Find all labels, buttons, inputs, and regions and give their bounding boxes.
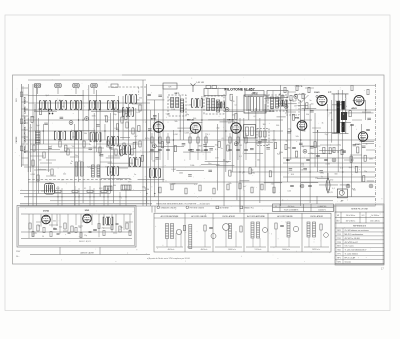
wire [295,93,306,95]
coil MF1a [171,98,174,108]
resistor R62 [329,148,331,154]
fill parts left upper-right [118,104,142,134]
svg-text:1k: 1k [366,144,368,146]
wire [120,136,130,138]
wire [37,88,39,94]
svg-text:Ch. HF bobinee sur resistance: Ch. HF bobinee sur resistance [345,229,369,232]
coil L5 [92,165,95,177]
wire [248,96,250,120]
coil MF4a [271,97,274,108]
svg-text:5n: 5n [71,161,73,163]
aerial symbol [191,84,196,93]
capacitor C71 [319,171,323,172]
svg-text:4n7: 4n7 [266,100,269,102]
capacitor CS2280 [228,149,232,150]
wire [28,79,146,81]
wire [342,90,344,194]
chassis boundary bottom [20,205,376,207]
svg-text:300: 300 [114,108,117,110]
svg-text:100k: 100k [334,132,338,134]
wire [278,103,297,105]
capacitor C34 [266,148,270,149]
resistor RX0 [284,87,286,92]
svg-text:ACCORD ANTENNE: ACCORD ANTENNE [247,215,265,218]
alignment boxes strip [154,213,331,252]
wire [317,130,319,172]
wire [182,104,184,140]
wire [244,152,263,154]
resistor RX2 [296,85,298,90]
svg-text:5n: 5n [61,179,63,181]
capacitor C50 [299,143,303,144]
svg-text:10n: 10n [152,161,155,163]
svg-text:4n7: 4n7 [134,136,137,138]
resistor RX8 [333,147,335,152]
capacitor CS1880 [188,149,192,150]
tube V7 [295,116,307,130]
svg-text:300: 300 [276,125,279,127]
electrolytic capacitor CE48 [284,105,288,109]
wire [309,104,311,203]
wire [264,182,282,184]
svg-text:TENSIONS MESUREES AVEC VOLTM: TENSIONS MESUREES AVEC VOLTMETRE — 20.00… [156,202,210,205]
title block table [335,204,384,265]
resistor R39 [230,94,232,100]
svg-text:a) A partir du No de serie 175: a) A partir du No de serie 1750 remplace… [147,257,190,260]
electrolytic capacitor CE100 [300,184,304,188]
frame fade [60,74,122,76]
svg-text:0,5M: 0,5M [184,132,189,134]
svg-text:UCH42: UCH42 [43,210,49,213]
svg-text:10n: 10n [208,163,211,165]
svg-text:2M2: 2M2 [251,172,255,174]
svg-text:25p: 25p [215,145,218,147]
capacitor C52 [287,132,291,133]
bus resistors [55,190,107,192]
svg-text:5n: 5n [70,163,72,165]
wire [28,102,150,104]
wire [57,88,59,94]
resistor PR4 [71,226,73,232]
svg-text:BO1: BO1 [337,246,341,248]
wire [231,96,233,172]
capacitor C36 [147,94,151,95]
connector J2 [55,84,61,88]
capacitor C3 [44,123,48,124]
switch box A [163,83,177,89]
wire [297,104,307,106]
switch box C [245,91,264,97]
wire [38,169,46,171]
svg-text:20p: 20p [186,114,189,116]
wire [286,100,288,182]
svg-text:470: 470 [128,182,131,184]
svg-text:25p: 25p [301,146,304,148]
svg-text:0,25: 0,25 [33,233,36,235]
svg-text:50: 50 [144,188,146,190]
svg-text:1400 kc/s: 1400 kc/s [228,249,236,251]
svg-text:1M: 1M [135,142,138,144]
electrolytic capacitor CE103 [369,184,373,188]
svg-text:50k: 50k [296,136,299,138]
capacitor C101 [292,147,296,148]
IF transformer S4 [90,101,101,110]
svg-text:HP 21 cm AP: HP 21 cm AP [345,257,356,260]
wire [319,150,346,152]
wire [200,149,208,151]
IF transformer S3 [71,101,82,110]
resistor RA4 [275,223,277,229]
wire [360,141,374,143]
resistor R35 [274,143,276,149]
capacitor CS2282 [244,149,248,150]
IF transformer S14 [126,95,137,104]
panel bus top [21,213,132,215]
svg-text:20p: 20p [72,137,75,139]
MF1 shield box [168,95,186,116]
svg-text:5n: 5n [310,100,312,102]
resistor RX5 [351,85,353,90]
svg-text:20p: 20p [302,131,305,133]
svg-text:10n: 10n [353,190,356,192]
wire [71,130,94,132]
svg-text:5n: 5n [75,166,77,168]
capacitor PC2 [53,228,57,229]
tube V10 [83,214,92,223]
coil LA4 [229,224,232,239]
capacitor C9 [88,148,92,149]
IF transformer S1 [40,101,51,110]
wire [225,96,227,172]
svg-text:0,5M: 0,5M [171,169,176,171]
section divider wire 2 [280,85,282,206]
wire [353,99,365,101]
resistor R29 [218,141,220,147]
coil LA3 [189,225,192,249]
wire [28,181,375,183]
capacitor C61 [367,118,371,119]
resistor R2 [39,108,41,114]
svg-text:10n: 10n [61,106,64,108]
svg-text:25p: 25p [325,134,328,136]
wire [32,84,34,206]
pilot lamp [326,173,330,193]
resistor PR6 [119,226,121,232]
electrolytic capacitor CE8 [85,117,89,121]
resistor R40 [235,113,237,119]
section divider wire [146,84,148,206]
wire [42,124,44,144]
coil LA8 [307,222,310,237]
wire [283,162,375,164]
wire [290,100,292,160]
resistor RS2281 [237,137,239,143]
svg-text:2k2: 2k2 [168,99,171,101]
capacitor C60 [362,146,366,147]
chassis boundary right [375,84,377,206]
svg-text:100k: 100k [158,143,162,145]
wire [162,85,164,182]
capacitor C47 [158,95,162,96]
AVC filter box [286,100,299,115]
wire [326,104,328,191]
svg-text:MOYENNE: MOYENNE [220,207,230,209]
alignment box 3 content [215,224,242,252]
resistor R15 [120,150,122,156]
resistor R18 [138,126,140,132]
wire [205,133,207,160]
wire [24,109,375,111]
wire [159,133,161,160]
coil MF4b [276,97,279,108]
svg-text:2k2: 2k2 [271,184,274,186]
wire [27,118,29,172]
IF transformer S11 [108,167,119,176]
wire [147,99,164,101]
wire [243,118,245,191]
svg-text:MF 1: MF 1 [175,93,181,95]
wire [340,184,350,186]
svg-text:50k: 50k [229,183,232,185]
svg-text:50: 50 [42,236,44,238]
resistor PR1 [37,225,39,231]
svg-text:1425 kc/s: 1425 kc/s [312,249,320,251]
svg-text:EL41: EL41 [314,91,320,94]
capacitor C102 [306,159,310,160]
wire [251,111,275,113]
svg-text:0,1: 0,1 [194,184,197,186]
svg-text:100k: 100k [116,146,120,148]
coil L3 [75,162,78,176]
wire [365,100,367,120]
svg-text:50: 50 [38,109,40,111]
svg-text:CV 2 cases: CV 2 cases [345,246,354,248]
capacitor C43 [208,170,212,171]
svg-text:50k: 50k [300,169,303,171]
svg-text:1k: 1k [345,106,347,108]
svg-text:0,5M: 0,5M [30,174,35,176]
volume control box [257,129,269,146]
coil LA6 [257,222,260,238]
wire [28,84,30,206]
wire [177,127,194,129]
capacitor C106 [366,129,370,130]
wire [229,133,231,160]
wire [104,124,106,140]
capacitor C20 [148,129,152,130]
MF2 shield box [204,96,224,114]
resistor R66 [306,103,308,109]
capacitor CA1 [209,227,213,228]
resistor RA5 [320,224,322,230]
wire [236,96,238,200]
panel small parts [32,223,131,237]
wire [91,111,117,113]
resistor RX3 [302,93,304,98]
svg-text:OSCILLATEUR: OSCILLATEUR [310,215,324,218]
wire [101,177,131,179]
wire [230,171,375,173]
electrolytic capacitor CE64 [294,95,298,99]
capacitor C105 [350,124,354,125]
electrolytic capacitor CE21 [153,144,157,148]
svg-text:0,1: 0,1 [235,104,238,106]
resistor R17 [133,142,135,148]
resistor R16 [125,114,127,120]
svg-text:25p: 25p [232,114,235,116]
svg-text:20p: 20p [216,127,219,129]
wire [29,124,31,172]
MF3 box [244,95,266,113]
IF transformer S5 [108,101,119,110]
svg-text:0,25: 0,25 [287,191,291,193]
svg-text:5n: 5n [221,148,223,150]
svg-text:50k: 50k [306,114,309,116]
IF transformer S13 [192,99,203,108]
wire [217,124,219,191]
svg-text:50: 50 [72,146,74,148]
svg-text:300: 300 [337,107,340,109]
svg-text:1k: 1k [321,176,323,178]
svg-text:SERIE PILOTONE: SERIE PILOTONE [351,208,368,210]
svg-text:470: 470 [82,222,85,224]
capacitor CA2 [280,225,284,226]
wire [300,100,302,206]
electrolytic capacitor CE54 [303,149,307,153]
resistor R55 [314,142,316,148]
wire [264,104,266,191]
wire [151,133,153,160]
svg-text:0,5M: 0,5M [326,163,331,165]
svg-text:190 à 560 m: 190 à 560 m [346,215,356,217]
AVC diagonal wires [294,95,309,103]
parts list rows [335,228,384,264]
svg-text:CADRE: CADRE [15,136,18,144]
svg-text:300: 300 [291,174,294,176]
wire [201,96,203,152]
capacitor C65 [281,95,285,96]
wire [24,196,375,198]
stub fills [46,152,128,168]
capacitor C104 [324,159,328,160]
svg-text:0,1: 0,1 [222,138,225,140]
svg-text:100k: 100k [171,109,175,111]
IF transformer S9 [108,137,119,146]
capacitor C51 [310,147,314,148]
svg-text:0,25: 0,25 [136,112,140,114]
wire [204,146,214,148]
wire [110,113,112,194]
wire [99,100,101,197]
svg-text:Tr. sortie 5000 Ω: Tr. sortie 5000 Ω [345,253,359,256]
svg-text:50: 50 [38,226,40,228]
svg-text:EF41: EF41 [151,118,157,121]
resistor RX6 [367,89,369,94]
IF transformer S7 [71,131,82,140]
svg-text:0,1: 0,1 [239,156,242,158]
wire [24,151,160,153]
wire [75,88,77,94]
tube V6 [351,96,364,110]
wire [172,130,174,172]
svg-text:25p: 25p [205,97,208,99]
svg-text:2k2: 2k2 [41,191,44,193]
svg-text:300: 300 [193,118,196,120]
svg-text:100k: 100k [92,116,96,118]
resistor R30 [227,145,229,151]
terminal strip [20,84,28,167]
IF transformer S18 [123,108,134,117]
resistor R23 [161,142,163,148]
resistor R73 [363,176,365,182]
resistor RS1502 [167,137,169,143]
resistor R12 [105,116,107,122]
svg-text:0,25: 0,25 [329,192,333,194]
svg-text:100k: 100k [272,140,276,142]
svg-text:1M: 1M [294,106,297,108]
svg-text:187 à 580 kc: 187 à 580 kc [346,220,356,222]
right column stubs [286,88,375,160]
svg-text:PETITES ONDES: PETITES ONDES [190,207,205,209]
resistor R44 [229,170,231,176]
wire [74,124,76,206]
coil pack [45,184,55,195]
svg-text:ACCORD CADRE: ACCORD CADRE [191,215,207,218]
svg-text:ACCORD CADRE: ACCORD CADRE [277,215,293,218]
resistor R24 [174,146,176,152]
svg-text:0,1: 0,1 [254,116,257,118]
svg-text:LIAISON CADRE: LIAISON CADRE [80,252,95,255]
IF transformer S6 [55,131,66,140]
svg-text:100k: 100k [90,168,94,170]
svg-text:470: 470 [266,145,269,147]
svg-text:25p: 25p [84,235,87,237]
electrolytic capacitor CE38 [225,108,229,112]
svg-text:50: 50 [327,183,329,185]
svg-text:50k: 50k [174,121,177,123]
wire [313,131,338,133]
FI table [273,204,334,212]
capacitor CS2281 [236,149,240,150]
svg-text:0,1: 0,1 [340,167,343,169]
panel value labels [33,220,122,237]
svg-text:470: 470 [78,161,81,163]
wire [337,90,339,172]
bottom-left panel border [17,206,136,248]
IF transformer S8 [90,133,101,142]
resistor RS1880 [189,137,191,143]
svg-text:0,25: 0,25 [114,128,118,130]
wire [239,118,241,206]
connector J1 [34,84,40,88]
wire [28,130,283,132]
wire [201,164,220,166]
svg-text:0,25: 0,25 [96,176,100,178]
svg-text:CH1: CH1 [337,262,341,264]
capacitor C41 [270,109,274,110]
svg-text:470: 470 [330,180,333,182]
svg-text:AERIAL – GRAMOPHONE – EARTH –: AERIAL – GRAMOPHONE – EARTH – CADRE – MA… [24,96,27,153]
IF transformer S2 [56,101,67,110]
resistor R14 [116,124,118,130]
wire [108,162,134,164]
coil L6 [97,165,100,177]
resistor R59 [357,147,359,153]
svg-text:2k2: 2k2 [63,174,66,176]
wire [50,200,333,202]
capacitor CS1502 [166,149,170,150]
connector J3 [73,84,79,88]
